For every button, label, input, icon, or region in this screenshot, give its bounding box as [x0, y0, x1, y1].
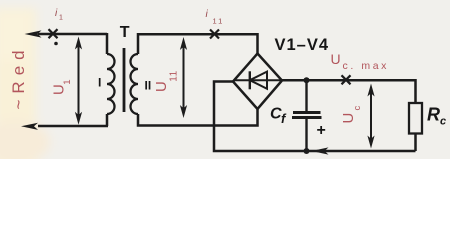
junction dot capacitor top — [304, 77, 310, 83]
resistor bottom lead — [414, 134, 417, 152]
svg-text:R: R — [427, 105, 440, 125]
label U11 (red, rotated) — [153, 70, 180, 92]
bridge rectifier V1-V4 diamond — [233, 54, 282, 110]
svg-text:V1–V4: V1–V4 — [275, 36, 330, 54]
svg-text:I: I — [98, 76, 101, 90]
svg-text:c. max: c. max — [343, 60, 390, 72]
arrow left bottom (mains) — [21, 123, 38, 130]
transformer T primary winding I — [107, 54, 115, 114]
label Uc.max (red) — [331, 51, 390, 72]
svg-text:U: U — [331, 51, 341, 67]
dot below X i1 — [54, 42, 58, 46]
secondary bottom lead and bottom wire to bridge bottom tip — [138, 109, 258, 126]
svg-text:U: U — [153, 81, 170, 92]
primary top lead — [106, 33, 109, 54]
svg-text:11: 11 — [169, 70, 180, 81]
label Uc (red, rotated) — [340, 106, 363, 124]
svg-text:c: c — [440, 116, 446, 128]
capacitor Cf — [292, 80, 322, 151]
breaking mark X for i11 — [210, 30, 219, 39]
bridge rectifier schematic — [0, 0, 450, 159]
svg-text:T: T — [120, 24, 130, 41]
wire top-left primary — [38, 33, 107, 36]
voltage arrow Uc — [367, 84, 374, 149]
wire bridge left corner riser — [214, 82, 416, 152]
voltage arrow U11 — [180, 37, 187, 118]
wire primary bottom — [38, 125, 108, 128]
svg-text:+: + — [317, 122, 326, 139]
label U1 (red, rotated) — [51, 79, 74, 95]
svg-text:U: U — [51, 84, 68, 95]
svg-text:11: 11 — [213, 17, 225, 26]
svg-text:U: U — [340, 113, 357, 124]
secondary top lead and top wire — [138, 34, 258, 54]
svg-text:1: 1 — [59, 15, 63, 22]
voltage arrow U1 — [75, 37, 82, 125]
resistor Rc — [409, 103, 422, 134]
junction dot capacitor bottom — [304, 148, 310, 154]
primary bottom lead — [106, 114, 109, 126]
current arrowhead on bottom rail — [312, 147, 329, 154]
diode inside bridge — [234, 71, 281, 89]
svg-text:1: 1 — [62, 79, 73, 84]
transformer core — [123, 48, 126, 112]
breaking mark X for Uc.max — [342, 75, 351, 84]
svg-text:c: c — [352, 106, 363, 111]
svg-text:~Red: ~Red — [9, 44, 28, 109]
arrow left top (mains) — [25, 30, 42, 37]
transformer T secondary winding II — [131, 54, 138, 114]
svg-text:II: II — [145, 79, 152, 93]
wire bridge right corner to resistor — [282, 80, 416, 103]
breaking mark X for i1 — [49, 29, 58, 38]
